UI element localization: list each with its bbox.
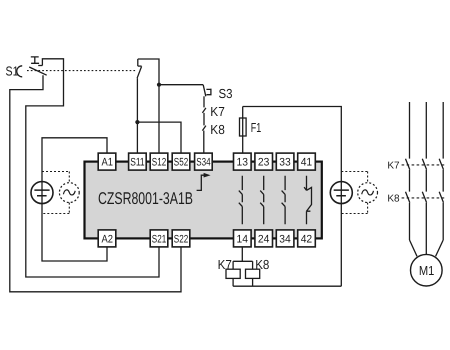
svg-text:S3: S3	[219, 86, 233, 101]
terminal A2	[98, 230, 116, 247]
svg-text:14: 14	[237, 233, 249, 245]
svg-text:S52: S52	[174, 157, 188, 169]
AC supply right circle	[358, 183, 378, 203]
svg-text:33: 33	[279, 157, 291, 169]
motor phase line L1	[409, 102, 411, 159]
svg-text:42: 42	[301, 233, 313, 245]
terminal 34	[276, 230, 294, 247]
contact K7 blade	[202, 108, 206, 113]
S1 contact1 tick	[38, 65, 42, 67]
contactor K7 linkage dashed	[402, 164, 445, 166]
terminal 23	[255, 153, 273, 170]
terminal 13	[234, 153, 252, 170]
DC supply right	[330, 182, 352, 204]
internal NO contact 13-14	[239, 176, 243, 224]
terminal S22	[172, 230, 190, 247]
wires converging to motor	[410, 240, 444, 256]
mechanical link dashed S1 to contact2	[27, 70, 136, 72]
S1 contact2 blade	[137, 66, 142, 78]
svg-text:A2: A2	[102, 233, 114, 245]
svg-text:F1: F1	[251, 120, 261, 135]
wire through fuse to terminal 13	[242, 107, 244, 154]
terminal S52	[172, 153, 190, 170]
wire K8 to S34	[203, 131, 205, 154]
motor phase line L2	[425, 102, 427, 159]
wire fuse top feed to right rail	[243, 107, 342, 287]
wire contact2 bottom to S11	[136, 78, 138, 153]
AC supply left dashed branch	[42, 172, 69, 214]
node junction S12 tap	[157, 83, 161, 87]
S1 plunger	[31, 57, 39, 63]
svg-text:K8: K8	[210, 122, 225, 137]
S3 actuator	[206, 89, 211, 96]
svg-text:S12: S12	[152, 157, 166, 169]
wire S21 loop (S21 down, left, up to S1 contact1 top)	[26, 59, 159, 277]
terminal S34	[195, 153, 213, 170]
S34 trigger arrow	[197, 175, 206, 190]
S1 contact2 tick	[138, 65, 142, 67]
S1 contact1 blade	[29, 67, 47, 75]
wire tap to S52	[137, 122, 181, 153]
terminal S21	[150, 230, 168, 247]
svg-text:K8: K8	[255, 257, 269, 272]
svg-text:K8: K8	[387, 193, 400, 204]
internal NO contact 23-24	[260, 176, 264, 224]
wire S12 tap to S3	[159, 84, 203, 86]
wire A1 supply loop (A1 up, left rail down through supply, to A2)	[42, 138, 107, 261]
svg-text:K7: K7	[387, 160, 400, 171]
node junction S11 tap	[135, 120, 139, 124]
svg-text:23: 23	[258, 157, 270, 169]
contact K8 blade	[202, 126, 206, 131]
svg-text:A1: A1	[102, 157, 114, 169]
wire K7 to K8 contact	[203, 113, 205, 126]
contactor K8 linkage dashed	[402, 197, 445, 199]
svg-text:13: 13	[237, 157, 249, 169]
coil K8	[246, 269, 260, 278]
contactor K8 main contacts	[406, 192, 444, 203]
AC supply left circle	[59, 183, 79, 203]
svg-text:K7: K7	[218, 257, 232, 272]
relay coil branch from 14	[233, 247, 253, 269]
terminal 14	[234, 230, 252, 247]
AC sine left	[63, 190, 75, 195]
AC supply right dashed branch	[341, 172, 367, 214]
internal NO contact 33-34	[282, 176, 286, 224]
svg-text:S34: S34	[196, 157, 210, 169]
terminal 24	[255, 230, 273, 247]
svg-text:CZSR8001-3A1B: CZSR8001-3A1B	[98, 189, 193, 208]
wire S22 loop (S22 down, far left, up to S1 contact1 bottom)	[10, 75, 181, 292]
svg-text:S21: S21	[152, 233, 166, 245]
svg-text:M1: M1	[419, 263, 435, 278]
terminal 41	[298, 153, 316, 170]
S1 contact2 top lead	[137, 59, 139, 66]
DC supply left	[31, 182, 53, 204]
terminal A1	[98, 153, 116, 170]
relay module body CZSR8001-3A1B	[85, 162, 322, 239]
motor M1	[411, 254, 443, 286]
fuse F1	[240, 118, 247, 136]
AC sine right	[362, 190, 374, 195]
terminal S11	[129, 153, 147, 170]
wire contact2 top to S12	[138, 59, 159, 153]
terminal 33	[276, 153, 294, 170]
svg-text:24: 24	[258, 233, 270, 245]
pushbutton S3 blade	[203, 85, 206, 97]
wire coils to right rail	[233, 278, 341, 286]
coil K7	[226, 269, 240, 278]
wire S3 to K7 contact	[203, 96, 205, 107]
S1 mushroom head arc	[17, 66, 23, 77]
motor phase line L3	[442, 102, 444, 159]
internal NC contact 41-42	[304, 176, 311, 224]
contactor K7 main contacts	[406, 159, 444, 170]
terminal 42	[298, 230, 316, 247]
svg-text:K7: K7	[210, 104, 225, 119]
svg-text:S11: S11	[130, 157, 144, 169]
svg-text:34: 34	[279, 233, 291, 245]
svg-text:S22: S22	[174, 233, 188, 245]
terminal S12	[150, 153, 168, 170]
svg-text:41: 41	[301, 157, 313, 169]
